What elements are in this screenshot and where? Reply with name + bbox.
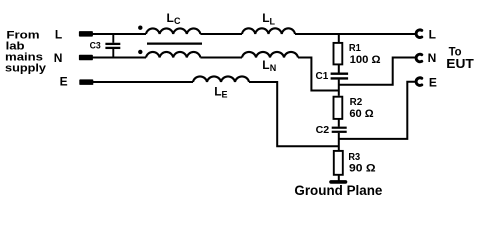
capacitor C2 — [332, 128, 347, 132]
svg-text:L: L — [429, 28, 436, 42]
svg-text:L: L — [214, 84, 221, 98]
wire C2 junction to E terminal — [339, 82, 416, 139]
terminal L (EUT) — [416, 30, 422, 38]
wire N line mid — [200, 57, 242, 59]
svg-text:R2: R2 — [350, 96, 363, 108]
inductor LC bottom winding — [146, 52, 200, 58]
svg-text:60 Ω: 60 Ω — [349, 108, 373, 120]
svg-text:N: N — [428, 51, 437, 65]
resistor R2 — [334, 97, 343, 119]
svg-text:EUT: EUT — [446, 57, 474, 71]
inductor LC top winding — [146, 28, 200, 34]
phase dot bottom — [138, 50, 142, 54]
wire N line left — [92, 57, 146, 59]
svg-text:N: N — [54, 51, 63, 65]
phase dot top — [138, 26, 142, 30]
wire R1 top stem — [338, 34, 340, 43]
resistor R1 — [334, 43, 343, 65]
svg-text:L: L — [270, 16, 276, 26]
svg-text:E: E — [60, 75, 68, 89]
svg-text:R3: R3 — [348, 151, 360, 163]
wire E to C2 junction — [249, 82, 339, 146]
capacitor C3 — [105, 34, 120, 58]
svg-text:L: L — [55, 28, 62, 42]
label From lab mains supply — [5, 30, 47, 75]
capacitor C1 — [331, 74, 349, 79]
svg-text:Ground Plane: Ground Plane — [294, 183, 382, 198]
svg-text:E: E — [222, 90, 228, 100]
terminal E (EUT) — [416, 78, 422, 86]
ground symbol — [331, 180, 346, 184]
svg-text:L: L — [167, 11, 174, 25]
svg-text:R1: R1 — [349, 42, 361, 54]
wire C1 to R2 — [338, 80, 340, 96]
wire N to C1 junction — [298, 58, 339, 91]
inductor LN — [242, 52, 298, 58]
wire R1 to C1 — [338, 64, 340, 72]
wire C1 junction to N terminal — [339, 58, 416, 85]
terminal E (mains) — [79, 79, 93, 85]
inductor LE — [193, 76, 249, 82]
svg-text:C: C — [174, 16, 181, 26]
inductor LL — [242, 28, 295, 34]
svg-text:C2: C2 — [316, 124, 330, 136]
svg-text:90 Ω: 90 Ω — [349, 162, 376, 174]
wire R2 to C2 — [338, 119, 340, 127]
svg-text:100 Ω: 100 Ω — [350, 54, 381, 66]
svg-text:C1: C1 — [316, 70, 329, 82]
wire L line left — [92, 33, 146, 35]
wire E line left — [93, 81, 193, 83]
wire L line mid — [200, 33, 242, 35]
resistor R3 — [334, 151, 343, 175]
wire R3 to ground — [338, 175, 340, 181]
svg-text:E: E — [429, 76, 437, 90]
svg-text:L: L — [262, 58, 269, 72]
svg-text:supply: supply — [5, 62, 47, 74]
terminal N (EUT) — [416, 54, 422, 62]
inductor LC core bar — [147, 42, 202, 44]
svg-text:L: L — [262, 11, 269, 25]
terminal L (mains) — [79, 31, 93, 36]
svg-text:C3: C3 — [90, 41, 101, 52]
svg-text:N: N — [270, 63, 277, 73]
terminal N (mains) — [79, 55, 93, 61]
wire L line right — [295, 33, 416, 35]
wire C2 to R3 — [338, 133, 340, 151]
